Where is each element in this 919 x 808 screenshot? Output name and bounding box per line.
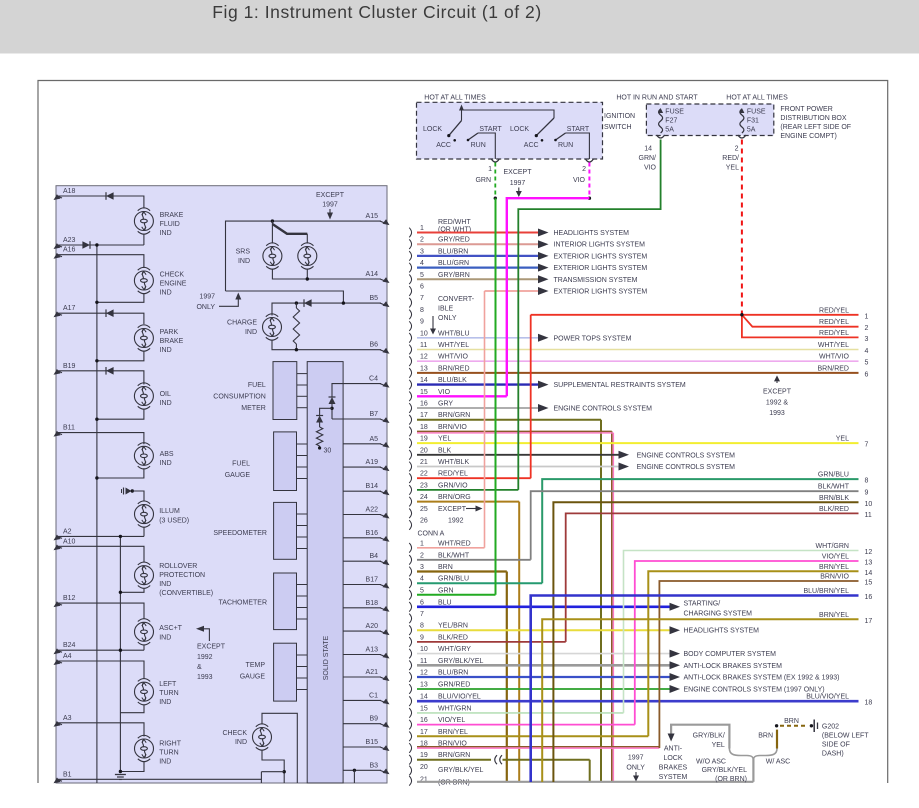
svg-text:RED/YEL: RED/YEL bbox=[819, 319, 849, 326]
arrow EXTERIOR LIGHTS SYSTEM bbox=[538, 264, 549, 272]
svg-text:IND: IND bbox=[160, 460, 172, 467]
svg-text:3: 3 bbox=[420, 248, 424, 255]
svg-text:4: 4 bbox=[420, 260, 424, 267]
wire abs to bus bbox=[97, 468, 144, 478]
svg-text:16: 16 bbox=[420, 401, 428, 408]
svg-text:IND: IND bbox=[159, 581, 171, 588]
svg-text:B24: B24 bbox=[63, 642, 76, 649]
svg-text:YEL: YEL bbox=[726, 165, 739, 172]
svg-text:A22: A22 bbox=[366, 507, 379, 514]
svg-text:B7: B7 bbox=[369, 411, 378, 418]
svg-text:ANTI-: ANTI- bbox=[664, 746, 683, 753]
pin B1 bbox=[57, 779, 62, 781]
svg-text:B1: B1 bbox=[63, 771, 72, 778]
svg-text:ENGINE: ENGINE bbox=[160, 281, 187, 288]
wire pin18 BRN/VIO bbox=[417, 430, 612, 432]
svg-text:B3: B3 bbox=[369, 762, 378, 769]
svg-text:IBLE: IBLE bbox=[438, 306, 454, 313]
svg-text:7: 7 bbox=[865, 442, 869, 449]
svg-text:TEMP: TEMP bbox=[246, 662, 266, 669]
svg-text:BLU/VIO/YEL: BLU/VIO/YEL bbox=[806, 694, 849, 701]
svg-text:POWER TOPS SYSTEM: POWER TOPS SYSTEM bbox=[554, 335, 632, 342]
ground cluster bbox=[115, 774, 126, 776]
svg-text:LOCK: LOCK bbox=[423, 126, 442, 133]
wire pin4 BLU/GRN bbox=[417, 267, 540, 269]
svg-text:GRN/BLU: GRN/BLU bbox=[438, 576, 469, 583]
svg-text:IND: IND bbox=[159, 759, 171, 766]
svg-text:VIO/YEL: VIO/YEL bbox=[822, 554, 849, 561]
arrow ENGINE CONTROLS SYSTEM 1997 bbox=[670, 685, 681, 693]
arrow ANTI-LOCK BRAKES SYSTEM bbox=[670, 661, 681, 669]
svg-text:A19: A19 bbox=[366, 459, 379, 466]
wire connA13 GRN/RED bbox=[417, 688, 671, 690]
svg-text:ACC: ACC bbox=[436, 142, 451, 149]
svg-text:LEFT: LEFT bbox=[159, 681, 177, 688]
wire pin14 BLU/BLK bbox=[417, 383, 540, 385]
lamp CHECK IND bbox=[253, 724, 272, 750]
connector 1 pins bbox=[409, 225, 470, 530]
svg-text:A13: A13 bbox=[366, 647, 379, 654]
lamp PARK BRAKE IND bbox=[134, 325, 153, 351]
svg-text:GRN: GRN bbox=[475, 177, 491, 184]
svg-text:GRN/VIO: GRN/VIO bbox=[438, 482, 468, 489]
svg-text:BLU/BRN/YEL: BLU/BRN/YEL bbox=[803, 588, 849, 595]
svg-text:RUN: RUN bbox=[558, 142, 573, 149]
svg-text:22: 22 bbox=[420, 471, 428, 478]
svg-text:EXTERIOR LIGHTS SYSTEM: EXTERIOR LIGHTS SYSTEM bbox=[554, 253, 648, 260]
svg-text:BLK/RED: BLK/RED bbox=[438, 634, 468, 641]
svg-text:RED/WHT: RED/WHT bbox=[438, 219, 471, 226]
wire A23 bbox=[57, 244, 144, 246]
svg-text:5A: 5A bbox=[747, 127, 756, 134]
svg-text:BRN/YEL: BRN/YEL bbox=[819, 612, 849, 619]
svg-text:1992 &: 1992 & bbox=[766, 400, 789, 407]
svg-text:C4: C4 bbox=[369, 376, 378, 383]
wire A16 bbox=[57, 255, 144, 268]
wire pin20 BLK bbox=[417, 454, 620, 456]
svg-text:CHECK: CHECK bbox=[222, 730, 247, 737]
wire RED/YEL out1 bbox=[531, 314, 859, 316]
lamp OIL IND bbox=[134, 383, 153, 409]
wire BRN/VIO out15 bbox=[659, 581, 858, 748]
wire pin24 BRN/ORG bbox=[417, 501, 519, 503]
svg-text:WHT/VIO: WHT/VIO bbox=[438, 354, 468, 361]
junction resistor B6 bbox=[295, 348, 298, 351]
wire connA9 BLK/RED bbox=[417, 641, 566, 643]
ignition switch box bbox=[417, 102, 603, 159]
junction G202 bbox=[810, 724, 813, 727]
wire RED/YEL dashed from fuse F31 bbox=[741, 140, 743, 315]
CONN A pins bbox=[409, 540, 483, 786]
svg-text:IND: IND bbox=[160, 290, 172, 297]
diode on A23 bbox=[82, 241, 90, 249]
wire pin23 GRN/VIO bbox=[417, 489, 518, 491]
diode on A18 bbox=[106, 192, 114, 200]
svg-text:HEADLIGHTS SYSTEM: HEADLIGHTS SYSTEM bbox=[554, 230, 630, 237]
svg-text:1997: 1997 bbox=[510, 180, 526, 187]
svg-text:LOCK: LOCK bbox=[663, 755, 682, 762]
pin A23 bbox=[57, 245, 62, 247]
arrow HEADLIGHTS SYSTEM bbox=[538, 229, 549, 237]
lamp SRS IND 1 bbox=[263, 243, 282, 269]
wire RED/YEL riser bbox=[530, 315, 532, 478]
speedometer pins bbox=[297, 513, 308, 515]
fuel consumption meter pins bbox=[297, 373, 308, 375]
svg-text:OIL: OIL bbox=[160, 391, 171, 398]
wire B4 bbox=[343, 560, 381, 562]
svg-text:IND: IND bbox=[238, 258, 250, 265]
svg-text:BRAKES: BRAKES bbox=[659, 765, 688, 772]
svg-text:ONLY: ONLY bbox=[196, 304, 215, 311]
arrow ANTI-LOCK BRAKES SYSTEM bottom bbox=[668, 734, 675, 742]
svg-text:ANTI-LOCK BRAKES SYSTEM (EX 19: ANTI-LOCK BRAKES SYSTEM (EX 1992 & 1993) bbox=[684, 675, 840, 682]
wire srs lamp2 feed bbox=[272, 224, 307, 234]
junction oil bus bbox=[95, 418, 98, 421]
junction check engine bus bbox=[95, 301, 98, 304]
wire left turn to bus2 bbox=[120, 705, 144, 713]
svg-text:15: 15 bbox=[420, 705, 428, 712]
wire asct to B24 bbox=[143, 645, 145, 650]
svg-text:IGNITION: IGNITION bbox=[604, 113, 635, 120]
wire A13 bbox=[343, 654, 381, 656]
wire pin13 BRN/RED bbox=[417, 372, 859, 374]
lamp LEFT TURN IND bbox=[135, 679, 154, 705]
svg-text:8: 8 bbox=[420, 623, 424, 630]
svg-text:ILLUM: ILLUM bbox=[159, 508, 180, 515]
junction B24 bus2 bbox=[119, 649, 122, 652]
svg-text:16: 16 bbox=[420, 717, 428, 724]
svg-text:BLK: BLK bbox=[438, 447, 452, 454]
svg-text:BRAKE: BRAKE bbox=[160, 212, 184, 219]
lamp RIGHT TURN IND bbox=[135, 735, 154, 761]
svg-text:BRAKE: BRAKE bbox=[160, 338, 184, 345]
svg-text:7: 7 bbox=[420, 295, 424, 302]
svg-text:IND: IND bbox=[245, 329, 257, 336]
svg-text:G202: G202 bbox=[822, 723, 839, 730]
svg-text:1997: 1997 bbox=[199, 294, 215, 301]
wire C1 bbox=[343, 699, 381, 701]
lamp BRAKE FLUID IND bbox=[134, 208, 153, 234]
wire oil to bus bbox=[97, 409, 144, 420]
arrow BODY COMPUTER SYSTEM bbox=[670, 650, 681, 658]
svg-text:21: 21 bbox=[420, 459, 428, 466]
wire B1 bbox=[57, 778, 261, 780]
svg-text:VIO: VIO bbox=[644, 165, 657, 172]
dimmer symbol bbox=[126, 488, 132, 495]
svg-text:FUSE: FUSE bbox=[665, 109, 684, 116]
svg-text:BRN: BRN bbox=[758, 733, 773, 740]
wire pin15 VIO bbox=[417, 395, 507, 397]
svg-text:GRN: GRN bbox=[438, 587, 454, 594]
wire connA12 BLU/BRN bbox=[417, 676, 671, 678]
junction B3 bbox=[353, 769, 356, 772]
wire A2 bbox=[57, 535, 144, 537]
wire BRN dashed to G202 bbox=[780, 725, 808, 727]
svg-text:11: 11 bbox=[420, 658, 427, 665]
svg-text:A17: A17 bbox=[63, 305, 76, 312]
svg-text:TACHOMETER: TACHOMETER bbox=[219, 600, 267, 607]
lamp ILLUM bbox=[135, 501, 154, 527]
wire pin12 WHT/VIO bbox=[417, 360, 859, 362]
arrow EXTERIOR LIGHTS SYSTEM bbox=[538, 252, 549, 260]
wire connA6 BLU bbox=[417, 605, 671, 608]
svg-text:GRN/BLU: GRN/BLU bbox=[818, 472, 849, 479]
svg-text:WHT/BLU: WHT/BLU bbox=[438, 330, 470, 337]
wire BLK/WHT out9 bbox=[531, 491, 859, 560]
svg-text:14: 14 bbox=[420, 377, 428, 384]
junction dimmer bbox=[131, 489, 134, 492]
wire connA3 BRN bbox=[417, 570, 507, 572]
wire B9 bbox=[343, 723, 381, 725]
svg-text:INTERIOR LIGHTS SYSTEM: INTERIOR LIGHTS SYSTEM bbox=[554, 242, 646, 249]
bus wire 2 bbox=[119, 536, 121, 771]
title bar bbox=[0, 0, 919, 54]
junction A2 bus2 bbox=[119, 535, 122, 538]
svg-text:5: 5 bbox=[865, 360, 869, 367]
wire pin16 GRY bbox=[417, 407, 540, 409]
wire connA17 BRN/YEL bbox=[417, 735, 648, 737]
wire A21 bbox=[343, 676, 381, 678]
junction park brake bus bbox=[95, 359, 98, 362]
svg-text:14: 14 bbox=[420, 694, 428, 701]
wire pin2 GRY/RED bbox=[417, 243, 540, 245]
svg-text:13: 13 bbox=[420, 365, 428, 372]
wire connA14 BLU/VIO/YEL bbox=[417, 700, 859, 703]
svg-text:ENGINE CONTROLS SYSTEM: ENGINE CONTROLS SYSTEM bbox=[637, 452, 736, 459]
svg-text:BRN/YEL: BRN/YEL bbox=[819, 564, 849, 571]
svg-text:7: 7 bbox=[420, 611, 424, 618]
wire connA2 BLK/WHT bbox=[417, 559, 531, 561]
arrow ENGINE CONTROLS SYSTEM row20 bbox=[619, 451, 630, 459]
svg-text:(OR BRN): (OR BRN) bbox=[438, 780, 470, 787]
svg-text:12: 12 bbox=[420, 670, 428, 677]
svg-text:HEADLIGHTS SYSTEM: HEADLIGHTS SYSTEM bbox=[684, 628, 760, 635]
svg-text:SOLID STATE: SOLID STATE bbox=[323, 635, 330, 680]
svg-text:1: 1 bbox=[420, 540, 424, 547]
wire 1997 only branch bbox=[226, 291, 344, 303]
svg-text:ROLLOVER: ROLLOVER bbox=[159, 563, 197, 570]
svg-text:GRY/BLK/YEL: GRY/BLK/YEL bbox=[702, 767, 748, 774]
svg-text:F27: F27 bbox=[665, 118, 677, 125]
svg-text:6: 6 bbox=[865, 371, 869, 378]
pin A4 bbox=[57, 661, 62, 663]
wire B5 bbox=[272, 303, 381, 315]
svg-text:BRN/RED: BRN/RED bbox=[438, 365, 470, 372]
svg-text:WHT/GRY: WHT/GRY bbox=[438, 646, 471, 653]
svg-text:18: 18 bbox=[865, 700, 873, 707]
wire BRN/YEL out14 bbox=[648, 571, 858, 736]
svg-text:10: 10 bbox=[420, 330, 428, 337]
arrow ENGINE CONTROLS SYSTEM row21 bbox=[619, 463, 630, 471]
wire lamp to A23 bbox=[143, 234, 145, 246]
fuse F27 terminal bbox=[657, 135, 665, 138]
svg-text:A5: A5 bbox=[369, 436, 378, 443]
svg-text:(OR BRN): (OR BRN) bbox=[715, 776, 747, 783]
svg-text:B12: B12 bbox=[63, 595, 76, 602]
resistor 30 bbox=[319, 423, 321, 428]
svg-text:3: 3 bbox=[865, 336, 869, 343]
wire VIO/YEL out13 bbox=[635, 561, 859, 725]
junction ground bbox=[119, 770, 122, 773]
wire B19 bbox=[57, 371, 144, 385]
wire B14 bbox=[343, 490, 381, 492]
svg-text:(CONVERTIBLE): (CONVERTIBLE) bbox=[159, 590, 213, 597]
svg-text:BRN/GRN: BRN/GRN bbox=[438, 752, 470, 759]
svg-text:VIO: VIO bbox=[438, 389, 451, 396]
bus wire 1 bbox=[96, 245, 98, 783]
wire resistor 30 branch bbox=[320, 408, 332, 415]
wire B15 bbox=[343, 746, 381, 748]
pin B19 bbox=[57, 371, 62, 373]
svg-text:WHT/VIO: WHT/VIO bbox=[819, 354, 849, 361]
svg-text:W/ ASC: W/ ASC bbox=[766, 759, 791, 766]
wire pin5 GRY/BRN bbox=[417, 278, 540, 280]
fuse box bbox=[646, 104, 773, 136]
svg-text:BLU/BRN: BLU/BRN bbox=[438, 670, 468, 677]
instrument cluster panel bbox=[56, 186, 387, 783]
arrow SUPPLEMENTAL RESTRAINTS SYSTEM bbox=[538, 381, 549, 389]
pin B24 bbox=[57, 650, 62, 652]
svg-text:10: 10 bbox=[420, 646, 428, 653]
svg-text:A16: A16 bbox=[63, 247, 76, 254]
svg-text:GRY/BLK/YEL: GRY/BLK/YEL bbox=[438, 658, 484, 665]
wire srs lamp1 top bbox=[271, 221, 273, 243]
svg-text:HOT AT ALL TIMES: HOT AT ALL TIMES bbox=[726, 95, 788, 102]
wire B6 bbox=[272, 340, 381, 350]
wire BLU/BRN/YEL out16 bbox=[531, 596, 859, 783]
svg-text:BRN/RED: BRN/RED bbox=[817, 365, 849, 372]
wire B18 bbox=[343, 607, 381, 609]
svg-text:GRY/BLK/YEL: GRY/BLK/YEL bbox=[438, 767, 484, 774]
svg-text:CHARGING SYSTEM: CHARGING SYSTEM bbox=[684, 610, 753, 617]
svg-text:VIO/YEL: VIO/YEL bbox=[438, 717, 465, 724]
svg-text:15: 15 bbox=[420, 389, 428, 396]
svg-text:17: 17 bbox=[420, 412, 428, 419]
wire A4 bbox=[57, 661, 144, 679]
svg-text:(BELOW LEFT: (BELOW LEFT bbox=[822, 732, 869, 739]
svg-text:YEL: YEL bbox=[438, 436, 451, 443]
lamp SRS IND 2 bbox=[298, 243, 317, 269]
svg-text:6: 6 bbox=[420, 599, 424, 606]
svg-text:1: 1 bbox=[420, 225, 424, 232]
svg-text:IND: IND bbox=[159, 699, 171, 706]
svg-text:B5: B5 bbox=[369, 295, 378, 302]
svg-text:EXTERIOR LIGHTS SYSTEM: EXTERIOR LIGHTS SYSTEM bbox=[554, 289, 648, 296]
svg-text:HOT IN RUN AND START: HOT IN RUN AND START bbox=[616, 95, 698, 102]
svg-text:5: 5 bbox=[420, 272, 424, 279]
wire RED/YEL out3 bbox=[742, 315, 859, 338]
svg-text:ASC+T: ASC+T bbox=[159, 625, 182, 632]
wire VIO ignition bbox=[588, 163, 590, 199]
svg-text:4: 4 bbox=[865, 348, 869, 355]
svg-text:5A: 5A bbox=[665, 127, 674, 134]
svg-text:A10: A10 bbox=[63, 538, 76, 545]
svg-text:W/O ASC: W/O ASC bbox=[696, 759, 726, 766]
svg-text:ENGINE CONTROLS SYSTEM: ENGINE CONTROLS SYSTEM bbox=[554, 406, 653, 413]
svg-text:13: 13 bbox=[420, 682, 428, 689]
svg-text:12: 12 bbox=[420, 354, 428, 361]
svg-text:BLK/WHT: BLK/WHT bbox=[818, 484, 850, 491]
lamp ASC+T IND bbox=[135, 619, 154, 645]
wire GRN/VIO from fuse F27 bbox=[518, 140, 660, 490]
svg-text:20: 20 bbox=[420, 447, 428, 454]
pin A18 bbox=[57, 196, 62, 198]
arrow ENGINE CONTROLS SYSTEM row16 bbox=[538, 404, 549, 412]
svg-text:WHT/GRN: WHT/GRN bbox=[438, 705, 471, 712]
svg-text:WHT/YEL: WHT/YEL bbox=[438, 342, 469, 349]
tachometer pins bbox=[297, 584, 308, 586]
wire pin1 RED/WHT bbox=[417, 232, 540, 234]
svg-text:WHT/BLK: WHT/BLK bbox=[438, 459, 469, 466]
wire connA19 continued bbox=[503, 759, 590, 761]
wire connA11 GRY/BLK/YEL bbox=[417, 664, 671, 667]
arrow HEADLIGHTS SYSTEM connA8 bbox=[670, 626, 681, 634]
wire connA19 BRN/GRN bbox=[417, 759, 491, 761]
svg-text:SYSTEM: SYSTEM bbox=[659, 774, 688, 781]
svg-text:YEL: YEL bbox=[712, 742, 725, 749]
resistor charge bbox=[295, 303, 297, 308]
wire pin19 YEL bbox=[417, 442, 859, 444]
svg-text:18: 18 bbox=[420, 424, 428, 431]
svg-text:15: 15 bbox=[865, 580, 873, 587]
svg-text:WHT/YEL: WHT/YEL bbox=[818, 342, 849, 349]
svg-text:1993: 1993 bbox=[197, 674, 213, 681]
svg-text:WHT/GRN: WHT/GRN bbox=[816, 543, 849, 550]
svg-text:BRN/YEL: BRN/YEL bbox=[438, 729, 468, 736]
pin B12 bbox=[57, 603, 62, 605]
svg-text:EXCEPT: EXCEPT bbox=[197, 644, 226, 651]
fuse F31 terminal bbox=[738, 135, 746, 138]
arrow STARTING/CHARGING SYSTEM bbox=[670, 603, 681, 611]
svg-text:9: 9 bbox=[865, 490, 869, 497]
wire GRY/BLK/YEL anti-lock tag bbox=[752, 758, 754, 782]
wire BRN/YEL out17 bbox=[542, 619, 858, 782]
wire connA20 GRY/BLK/YEL bottom bbox=[417, 781, 753, 783]
svg-text:RED/YEL: RED/YEL bbox=[819, 330, 849, 337]
svg-text:LOCK: LOCK bbox=[510, 126, 529, 133]
brace split bbox=[729, 749, 777, 761]
wire connA18 BRN/VIO bbox=[417, 747, 659, 749]
svg-text:FUEL: FUEL bbox=[232, 461, 250, 468]
wire connA1 WHT/RED bbox=[417, 547, 485, 549]
wire row6 WHT/RED branch bbox=[485, 290, 540, 292]
svg-text:A2: A2 bbox=[63, 528, 72, 535]
wire park brake to bus bbox=[97, 351, 144, 361]
wire ignition top link bbox=[462, 110, 555, 118]
junction charge resistor top bbox=[295, 301, 298, 304]
wire A14 bbox=[272, 269, 381, 280]
svg-text:A14: A14 bbox=[366, 271, 379, 278]
svg-text:BLU: BLU bbox=[438, 599, 452, 606]
svg-text:(3 USED): (3 USED) bbox=[159, 518, 189, 525]
wire connA5 GRN bbox=[417, 594, 496, 596]
svg-text:RED/: RED/ bbox=[722, 155, 739, 162]
svg-text:DISTRIBUTION BOX: DISTRIBUTION BOX bbox=[780, 115, 846, 122]
wire GRN ignition bbox=[494, 163, 496, 199]
svg-text:14: 14 bbox=[644, 146, 652, 153]
pin A17 bbox=[57, 313, 62, 315]
svg-text:1: 1 bbox=[865, 313, 869, 320]
svg-text:9: 9 bbox=[420, 319, 424, 326]
svg-text:EXTERIOR LIGHTS SYSTEM: EXTERIOR LIGHTS SYSTEM bbox=[554, 265, 648, 272]
svg-text:GRY: GRY bbox=[438, 401, 453, 408]
svg-text:(REAR LEFT SIDE OF: (REAR LEFT SIDE OF bbox=[780, 124, 851, 131]
svg-text:RUN: RUN bbox=[471, 142, 486, 149]
diode 30 bbox=[316, 416, 323, 423]
fuse F31 bbox=[740, 109, 744, 133]
pin A3 bbox=[57, 723, 62, 725]
svg-text:RIGHT: RIGHT bbox=[159, 741, 182, 748]
